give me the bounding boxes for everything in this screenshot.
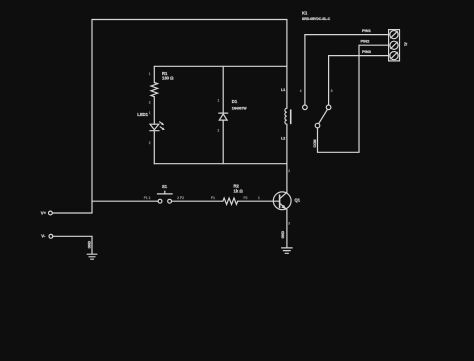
relay contact NO pin	[326, 56, 388, 110]
wire LED1 to bottom rail	[153, 131, 155, 164]
svg-text:3: 3	[288, 222, 290, 226]
svg-text:1: 1	[149, 111, 151, 115]
wire S1 to R2	[172, 200, 223, 202]
resistor R1	[151, 83, 158, 97]
svg-text:2: 2	[288, 169, 290, 173]
svg-text:2: 2	[149, 100, 151, 104]
wire base branch	[92, 200, 158, 202]
wire parallel-network top rail	[154, 65, 287, 67]
relay K1 coil	[285, 108, 291, 124]
ground at Q1 emitter	[282, 248, 293, 253]
svg-text:K1: K1	[302, 10, 308, 15]
svg-text:V+: V+	[41, 210, 47, 215]
svg-text:GND: GND	[88, 240, 92, 248]
svg-text:S1: S1	[162, 184, 168, 189]
relay armature	[319, 109, 328, 123]
svg-text:PIN3: PIN3	[362, 49, 372, 54]
svg-text:L2: L2	[281, 136, 285, 140]
svg-text:SRD-05VDC-SL-C: SRD-05VDC-SL-C	[302, 17, 331, 21]
switch S1	[157, 191, 172, 203]
svg-text:LED1: LED1	[137, 112, 148, 117]
wire D1 branch top stub	[222, 66, 224, 113]
node V- terminal	[49, 234, 53, 238]
svg-text:P2: P2	[244, 196, 248, 200]
svg-text:D1: D1	[232, 99, 238, 104]
connector J1 body	[389, 30, 400, 61]
ground at V-	[87, 254, 97, 259]
svg-text:1: 1	[258, 196, 260, 200]
svg-text:P1 1: P1 1	[144, 196, 151, 200]
svg-text:1N4007W: 1N4007W	[232, 106, 248, 110]
svg-text:1: 1	[149, 72, 151, 76]
wire coil bottom to rail	[286, 124, 288, 164]
svg-text:2: 2	[218, 128, 220, 132]
wire relay coil branch top	[286, 20, 288, 109]
svg-text:V-: V-	[41, 234, 46, 239]
svg-text:Q1: Q1	[295, 197, 301, 202]
svg-text:J1: J1	[404, 42, 408, 46]
wire R1 to LED1	[153, 97, 155, 125]
wire left vertical	[91, 20, 93, 214]
svg-text:L1: L1	[281, 88, 285, 92]
svg-text:2: 2	[149, 141, 151, 145]
wire D1 to bottom rail	[222, 120, 224, 164]
wire V- terminal to ground	[53, 236, 92, 254]
wire Q1 collector	[286, 164, 288, 193]
wire parallel-network bottom rail	[154, 163, 287, 165]
svg-text:1: 1	[218, 98, 220, 102]
wire Q1 emitter	[286, 210, 288, 248]
node V+ terminal	[49, 211, 53, 215]
svg-text:GND: GND	[281, 230, 285, 238]
svg-text:P1: P1	[211, 196, 215, 200]
svg-text:130 Ω: 130 Ω	[162, 75, 174, 80]
svg-text:PIN2: PIN2	[361, 39, 371, 44]
connector J1 screw pin3	[390, 52, 398, 60]
wire R2 to Q1 base	[238, 200, 280, 202]
svg-text:COM: COM	[313, 139, 317, 147]
transistor Q1	[273, 192, 291, 210]
relay contact NC pin	[303, 35, 389, 110]
svg-text:1k Ω: 1k Ω	[234, 188, 244, 193]
svg-text:4: 4	[300, 89, 302, 93]
wire R1 branch top stub	[153, 66, 155, 82]
resistor R2	[223, 198, 238, 204]
relay contact COM pin	[315, 45, 388, 152]
wire V+ to left vertical	[52, 212, 92, 214]
svg-text:6: 6	[331, 89, 333, 93]
diode D1	[219, 113, 228, 120]
connector J1 screw pin1	[390, 30, 398, 38]
LED LED1	[150, 122, 165, 131]
svg-text:2 P2: 2 P2	[177, 196, 184, 200]
connector J1 screw pin2	[390, 41, 398, 49]
wire top rail	[92, 19, 287, 21]
svg-text:PIN1: PIN1	[362, 28, 372, 33]
